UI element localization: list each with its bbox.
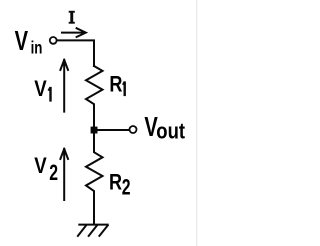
wire top: Vin terminal to corner xyxy=(57,40,94,66)
label V2 xyxy=(34,155,58,186)
terminal Vout xyxy=(130,126,137,133)
label V1 xyxy=(34,78,50,102)
wire node to Vout xyxy=(98,129,130,131)
ground xyxy=(78,225,108,236)
arrow V2 xyxy=(60,149,68,200)
svg-text:2: 2 xyxy=(122,176,131,200)
node junction (square dot) xyxy=(91,127,98,134)
arrow V1 xyxy=(60,60,68,112)
current arrow I xyxy=(61,28,86,38)
resistor R1 xyxy=(86,66,103,127)
label Vout xyxy=(144,112,185,144)
terminal Vin xyxy=(50,37,57,44)
svg-text:in: in xyxy=(31,39,43,58)
svg-text:R: R xyxy=(109,72,122,97)
label R2 xyxy=(109,170,131,200)
svg-text:2: 2 xyxy=(49,162,58,186)
svg-text:V: V xyxy=(34,78,47,102)
label R1 xyxy=(109,72,124,97)
label I xyxy=(69,11,75,24)
resistor R2 xyxy=(86,133,103,223)
svg-text:R: R xyxy=(109,170,122,195)
svg-text:out: out xyxy=(156,120,185,144)
svg-text:V: V xyxy=(34,155,47,179)
svg-text:V: V xyxy=(15,26,29,57)
label Vin xyxy=(15,26,43,58)
